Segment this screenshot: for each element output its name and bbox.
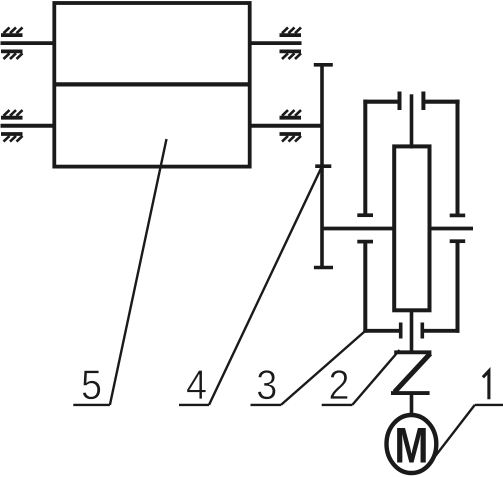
bottom bracket left horizontal arm [363, 329, 400, 333]
top bracket left horizontal arm [363, 100, 399, 104]
top bracket left coupling tick [398, 92, 402, 111]
bottom cap bar of vertical shaft [314, 266, 333, 269]
elastic coupling bottom bar [391, 391, 430, 395]
divider line between the two rolls [53, 82, 252, 86]
svg-text:2: 2 [328, 362, 349, 408]
elastic coupling diagonal [395, 354, 431, 393]
shaft of top roll, left end [1, 41, 57, 45]
bearing top-left [1, 27, 23, 59]
leader line of label 1 [431, 405, 475, 462]
label digit 1 [483, 371, 489, 399]
left outer vertical shaft, lower segment [363, 242, 367, 333]
vertical gear shaft (item 4) [320, 65, 324, 268]
lower-left gear bar [357, 240, 373, 244]
center input shaft, middle segment [410, 310, 414, 352]
top bracket right horizontal arm [423, 100, 459, 104]
upper-left gear bar [357, 213, 373, 217]
underline of label 1 [475, 404, 503, 406]
leader line of label 4 [209, 166, 322, 405]
svg-text:3: 3 [256, 362, 277, 408]
bearing top-right [280, 27, 302, 59]
lower-right gear bar [450, 239, 466, 243]
svg-text:4: 4 [186, 362, 207, 408]
shaft of bottom roll, left end [1, 124, 57, 128]
shaft of top roll, right end [248, 41, 302, 45]
elastic coupling (item 2) top bar [394, 350, 431, 354]
svg-text:5: 5 [81, 362, 102, 408]
leader line of label 2 [352, 350, 399, 405]
bearing bottom-left [1, 110, 23, 141]
horizontal gear shaft through worm housing [322, 227, 473, 231]
top bracket right coupling tick [421, 92, 425, 111]
underline of label 5 [73, 404, 110, 406]
shaft of bottom roll, right end (drives gear shaft) [248, 124, 324, 128]
right outer vertical shaft, lower segment [456, 241, 460, 333]
top cap bar of vertical shaft [314, 63, 333, 67]
underline of label 3 [251, 404, 282, 406]
center input shaft, top segment [410, 94, 414, 148]
leader line of label 5 [110, 139, 167, 405]
roll pair housing (item 5) [54, 3, 249, 167]
underline of label 2 [322, 404, 353, 406]
upper-right gear bar [450, 214, 466, 218]
svg-text:M: M [394, 418, 428, 474]
worm / sleeve housing (tall rectangle) [394, 146, 429, 310]
middle tick on vertical shaft (pointer target of label 4) [315, 164, 331, 168]
motor (item 1) circle [387, 415, 437, 473]
leader line of label 3 [281, 330, 366, 405]
left outer vertical shaft, upper segment [363, 100, 367, 216]
motor shaft stub [410, 393, 414, 414]
bottom bracket right coupling tick [420, 323, 424, 339]
right outer vertical shaft, upper segment [456, 100, 460, 216]
bottom bracket right horizontal arm [422, 329, 459, 333]
bearing bottom-right [280, 110, 302, 141]
bottom bracket left coupling tick [399, 323, 403, 339]
underline of label 4 [179, 404, 209, 406]
